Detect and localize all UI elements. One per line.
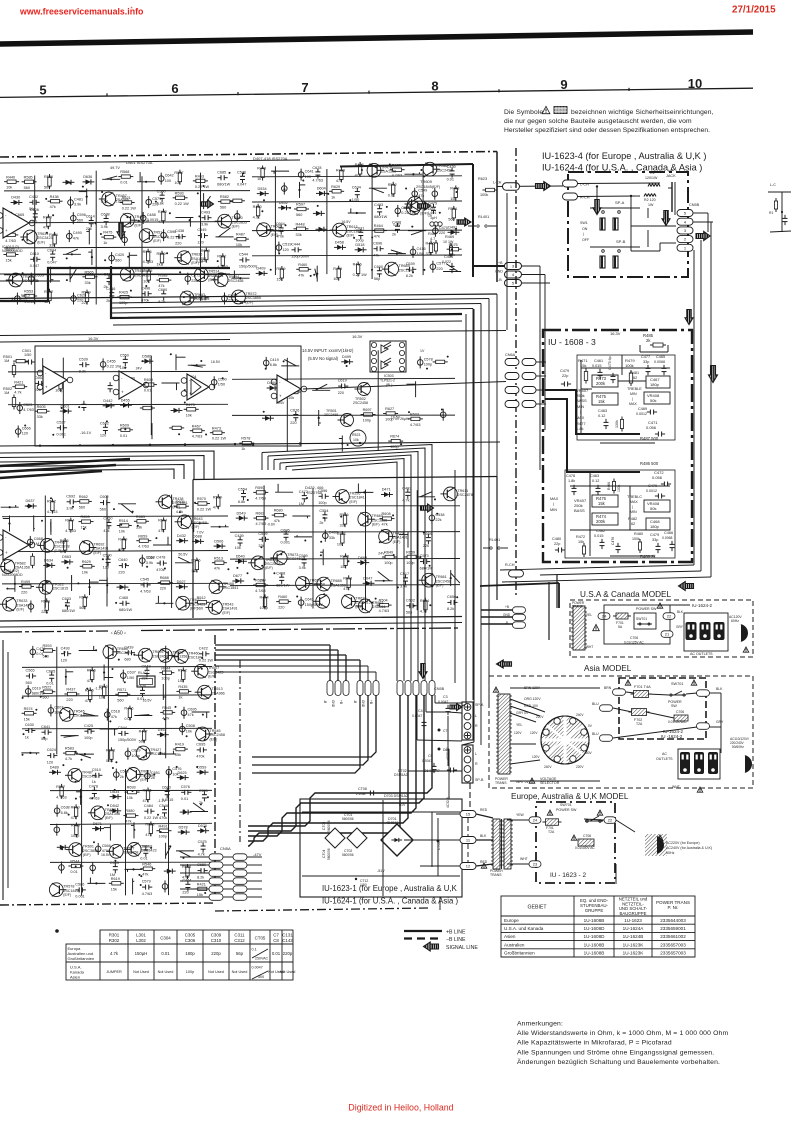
- transistor TR692: [80, 541, 94, 555]
- svg-text:Großbritannien: Großbritannien: [504, 951, 535, 956]
- capacitor C685: [113, 866, 118, 868]
- svg-text:100p: 100p: [84, 736, 92, 740]
- svg-text:C692: C692: [66, 494, 75, 498]
- svg-text:0.12: 0.12: [592, 479, 599, 483]
- svg-text:2k: 2k: [120, 775, 124, 779]
- svg-text:C478: C478: [156, 556, 165, 560]
- capacitor C651: [145, 773, 151, 779]
- capacitor C577: [430, 264, 436, 270]
- resistor R680: [275, 513, 284, 516]
- svg-text:33k: 33k: [37, 415, 43, 419]
- svg-text:D637: D637: [26, 499, 35, 503]
- svg-text:50Hz: 50Hz: [666, 851, 675, 855]
- transistor TR514: [139, 229, 153, 243]
- svg-text:1k: 1k: [92, 780, 96, 784]
- wire: [132, 878, 134, 894]
- svg-text:15k: 15k: [24, 717, 30, 721]
- diode D636: [86, 179, 91, 184]
- svg-text:C468: C468: [276, 571, 285, 575]
- resistor R542: [103, 687, 106, 696]
- capacitor C488: [140, 215, 146, 221]
- resistor R523 10k: [350, 430, 366, 446]
- capacitor C662: [103, 426, 108, 428]
- resistor R509: [85, 293, 88, 302]
- transistor TR545: [60, 708, 74, 722]
- svg-text:D407-418 ISS270A: D407-418 ISS270A: [253, 156, 288, 161]
- capacitor C664: [279, 227, 284, 229]
- transistor TR611: [444, 487, 458, 501]
- thick wire tone link 2: [545, 399, 640, 472]
- resistor R574: [25, 712, 34, 715]
- transistor TR522: [39, 580, 53, 594]
- capacitor C576: [240, 175, 245, 177]
- svg-text:560: 560: [448, 217, 454, 221]
- resistor R625: [233, 199, 242, 202]
- diode D549: [239, 516, 245, 521]
- svg-text:C476: C476: [611, 537, 615, 545]
- svg-text:-51V: -51V: [377, 869, 385, 873]
- diode D491: [451, 230, 457, 235]
- svg-text:0.01/400V AC: 0.01/400V AC: [575, 846, 595, 850]
- svg-text:(E/F): (E/F): [16, 608, 24, 612]
- resistor R678: [110, 750, 113, 759]
- svg-text:0.047: 0.047: [47, 261, 57, 265]
- resistor R695: [63, 541, 66, 550]
- fuse F701 T4A: [634, 691, 649, 698]
- transistor TR609: [408, 197, 423, 212]
- svg-text:240V: 240V: [576, 713, 584, 717]
- capacitor C456: [129, 382, 131, 387]
- svg-text:0.047: 0.047: [30, 264, 40, 268]
- capacitor C596: [321, 494, 323, 499]
- svg-text:C478: C478: [566, 474, 575, 478]
- svg-text:R475: R475: [103, 231, 112, 235]
- svg-text:47k: 47k: [143, 799, 149, 803]
- capacitor C425: [87, 729, 89, 734]
- wire: [69, 266, 71, 282]
- transistor TR457: [102, 192, 116, 206]
- svg-text:C444: C444: [291, 242, 300, 246]
- capacitor C453: [108, 385, 113, 387]
- connector pill 22 europe: [604, 817, 616, 824]
- resistor R583: [66, 751, 75, 754]
- svg-text:680/1W: 680/1W: [276, 584, 290, 588]
- svg-text:C596: C596: [77, 213, 86, 217]
- wire filter output: [303, 382, 506, 390]
- svg-text:0.01: 0.01: [388, 193, 395, 197]
- svg-text:100p: 100p: [55, 388, 63, 392]
- resistor R653: [82, 520, 91, 523]
- svg-text:IC503: IC503: [384, 374, 394, 378]
- svg-text:560: 560: [26, 681, 32, 685]
- svg-text:10k: 10k: [60, 550, 66, 554]
- svg-text:D688: D688: [193, 535, 202, 539]
- svg-text:(E/F): (E/F): [191, 261, 199, 265]
- svg-text:Australien: Australien: [504, 942, 525, 947]
- connector pill R-CH: [509, 570, 524, 577]
- svg-text:0.01: 0.01: [137, 697, 144, 701]
- diode D442: [106, 403, 111, 408]
- svg-text:C465: C465: [656, 355, 665, 359]
- svg-text:C545: C545: [197, 228, 206, 232]
- warning triangle asia 3: [697, 787, 703, 792]
- svg-text:GND: GND: [361, 700, 365, 708]
- svg-text:Asia MODEL: Asia MODEL: [584, 664, 632, 673]
- svg-text:+: +: [279, 394, 282, 399]
- svg-text:(E/F): (E/F): [134, 224, 142, 228]
- svg-text:560: 560: [42, 696, 48, 700]
- resistor R421: [53, 235, 56, 244]
- resistor R635: [146, 791, 149, 800]
- svg-text:R463: R463: [195, 175, 204, 179]
- svg-text:Digitized in Heiloo, Holland: Digitized in Heiloo, Holland: [348, 1103, 453, 1113]
- wire: [175, 562, 193, 564]
- wire: [102, 178, 120, 180]
- svg-text:100k: 100k: [632, 537, 640, 541]
- resistor R546: [143, 867, 152, 870]
- capacitor C705: [437, 840, 440, 843]
- svg-text:8.2k: 8.2k: [79, 370, 86, 374]
- svg-text:R545: R545: [162, 706, 171, 710]
- svg-text:0.0047: 0.0047: [252, 966, 263, 970]
- svg-text:D452: D452: [279, 201, 288, 205]
- svg-text:220: 220: [160, 587, 166, 591]
- svg-text:10k: 10k: [235, 546, 241, 550]
- svg-text:0.01: 0.01: [144, 389, 151, 393]
- capacitor C602: [103, 500, 105, 505]
- svg-text:R421: R421: [14, 380, 23, 384]
- capacitor C685: [234, 214, 240, 220]
- resistor R404: [172, 426, 181, 429]
- capacitor C596: [161, 232, 167, 238]
- wire: [165, 843, 167, 859]
- svg-text:250VAC: 250VAC: [255, 957, 269, 961]
- resistor R603: [411, 417, 420, 420]
- capacitor C436: [109, 292, 114, 294]
- svg-text:10k: 10k: [82, 570, 88, 574]
- svg-text:0.01: 0.01: [140, 857, 147, 861]
- svg-text:4.7/63: 4.7/63: [255, 589, 266, 593]
- svg-text:R653: R653: [81, 515, 90, 519]
- connector CN5B pills group3: [397, 681, 403, 696]
- svg-text:0.01: 0.01: [120, 434, 127, 438]
- resistor R474 200k: [592, 513, 618, 525]
- wire: [89, 579, 91, 595]
- capacitor C696: [376, 246, 378, 251]
- resistor R521: [123, 201, 132, 204]
- parts table right: [501, 896, 695, 957]
- svg-text:C641: C641: [41, 725, 50, 729]
- svg-text:0.22 1W: 0.22 1W: [122, 207, 137, 211]
- svg-text:100p: 100p: [384, 561, 392, 565]
- svg-text:TLP521-2: TLP521-2: [380, 379, 395, 383]
- AC outlets USA: [684, 613, 728, 651]
- node CT bullet: [438, 729, 441, 732]
- svg-text:120: 120: [22, 432, 28, 436]
- svg-text:C576: C576: [181, 785, 190, 789]
- transistor TR661: [422, 573, 436, 587]
- wire: [106, 577, 108, 593]
- connector pill R-CH: [563, 193, 578, 200]
- resistor R675: [450, 248, 459, 251]
- svg-text:L401: L401: [428, 211, 436, 215]
- svg-text:0.22 1W: 0.22 1W: [212, 437, 227, 441]
- resistor R587: [178, 173, 181, 182]
- svg-text:1M: 1M: [4, 359, 9, 363]
- svg-text:14.5V INPUT: xxxmV(1kHz): 14.5V INPUT: xxxmV(1kHz): [302, 348, 354, 353]
- svg-text:6.8k: 6.8k: [238, 500, 245, 504]
- capacitor C650: [200, 868, 202, 873]
- capacitor C688: [104, 218, 109, 220]
- svg-text:2SC1841: 2SC1841: [223, 586, 238, 590]
- svg-text:C311: C311: [234, 932, 245, 937]
- block A50 inner dash wire: [239, 660, 241, 842]
- capacitor C510: [6, 542, 11, 544]
- svg-text:TRANS: TRANS: [490, 873, 502, 877]
- svg-text:R562: R562: [178, 669, 187, 673]
- svg-text:C8: C8: [273, 938, 279, 943]
- svg-text:R656: R656: [87, 669, 96, 673]
- wire: [408, 230, 426, 232]
- capacitor C518: [105, 712, 111, 718]
- capacitor C439: [127, 650, 129, 655]
- capacitor C688: [54, 827, 60, 833]
- svg-text:0.047: 0.047: [237, 183, 247, 187]
- svg-text:150µH: 150µH: [135, 951, 148, 956]
- svg-text:C589: C589: [299, 554, 308, 558]
- transistor TR633: [2, 597, 16, 611]
- svg-text:YEW: YEW: [516, 813, 525, 817]
- svg-text:BASS: BASS: [574, 508, 585, 513]
- svg-text:1k: 1k: [103, 241, 107, 245]
- svg-text:C600: C600: [374, 265, 383, 269]
- svg-text:CT04: CT04: [322, 850, 326, 858]
- capacitor C502: [114, 772, 120, 778]
- resistor R649: [385, 555, 394, 558]
- svg-text:-B: -B: [353, 700, 357, 703]
- svg-text:GND: GND: [503, 613, 511, 617]
- transistor TR468: [209, 580, 223, 594]
- svg-text:4.7k: 4.7k: [402, 499, 409, 503]
- svg-text:BLU: BLU: [592, 702, 599, 706]
- svg-text:Not Used: Not Used: [280, 970, 296, 974]
- svg-text:SP-A: SP-A: [615, 200, 625, 205]
- resistor R659: [436, 360, 445, 363]
- capacitor C631: [358, 231, 363, 233]
- svg-text:0.015: 0.015: [592, 364, 602, 368]
- svg-text:0.01: 0.01: [272, 951, 281, 956]
- svg-text:470k: 470k: [276, 234, 284, 238]
- svg-text:R544: R544: [70, 860, 79, 864]
- svg-text:C695: C695: [281, 528, 290, 532]
- capacitor C672: [185, 276, 191, 282]
- diode D668: [360, 560, 365, 565]
- svg-text:BLK: BLK: [716, 687, 723, 691]
- resistor R421: [341, 534, 344, 543]
- capacitor C539: [82, 362, 84, 367]
- svg-text:R580: R580: [125, 809, 134, 813]
- transistor TR478: [367, 163, 381, 177]
- svg-text:C479: C479: [560, 369, 569, 373]
- wire: [176, 850, 194, 852]
- svg-text:CT08: CT08: [358, 787, 367, 791]
- table bullet: [55, 929, 59, 933]
- potentiometer VR408 50k: [644, 392, 670, 404]
- capacitor C438: [395, 225, 400, 227]
- svg-text:100p: 100p: [71, 834, 79, 838]
- svg-text:C544: C544: [118, 726, 127, 730]
- capacitor C641: [44, 730, 46, 735]
- svg-text:D578: D578: [179, 825, 188, 829]
- svg-text:R509: R509: [82, 291, 91, 295]
- svg-text:IU-1623-1 (for Europe , Austra: IU-1623-1 (for Europe , Australia & U,K: [322, 884, 458, 893]
- wires into CN5A: [180, 856, 209, 858]
- capacitor C663: [38, 381, 40, 386]
- svg-text:2SC2458: 2SC2458: [152, 654, 167, 658]
- connector pill BLU 2: [600, 735, 613, 742]
- svg-text:1U-1608B: 1U-1608B: [584, 942, 605, 947]
- wire: [348, 212, 366, 214]
- svg-text:120V: 120V: [532, 755, 540, 759]
- relay RL401 protection: [137, 676, 155, 687]
- svg-text:50/60Hz: 50/60Hz: [732, 745, 744, 749]
- capacitor C493: [377, 208, 382, 210]
- resistor R586: [343, 515, 346, 524]
- svg-text:200k: 200k: [596, 381, 606, 386]
- capacitor C695: [199, 747, 201, 752]
- svg-text:C432: C432: [29, 195, 38, 199]
- capacitor C559: [426, 537, 431, 539]
- svg-text:D540: D540: [236, 555, 245, 559]
- capacitor C455: [100, 362, 106, 368]
- hatched arrow down: [117, 223, 125, 239]
- voltage selector: [541, 716, 589, 764]
- svg-text:RED: RED: [480, 808, 488, 812]
- resistor R578: [242, 441, 251, 444]
- bottom border wire extension: [215, 908, 430, 911]
- svg-text:C422: C422: [199, 646, 208, 650]
- wire: [231, 277, 249, 279]
- svg-text:47k: 47k: [214, 567, 220, 571]
- svg-text:0.01: 0.01: [124, 717, 131, 721]
- svg-text:R407: R407: [139, 729, 148, 733]
- resistor R609: [205, 251, 208, 260]
- svg-text:33k: 33k: [329, 536, 335, 540]
- svg-text:10k: 10k: [333, 277, 339, 281]
- wire: [175, 217, 193, 219]
- svg-text:BLK: BLK: [480, 834, 487, 838]
- capacitor C643: [298, 600, 304, 606]
- capacitor C450: [106, 522, 111, 524]
- connector pill GRY asia: [697, 723, 710, 730]
- svg-text:R571: R571: [117, 688, 126, 692]
- wire: [1, 506, 19, 508]
- fuse F701 5A USA: [616, 613, 628, 619]
- capacitor C465: [122, 601, 124, 606]
- svg-text:220: 220: [82, 301, 88, 305]
- svg-text:R425: R425: [119, 291, 128, 295]
- svg-text:-B: -B: [498, 278, 502, 282]
- warning triangle asia 2: [691, 680, 697, 685]
- svg-text:(E/F): (E/F): [265, 566, 273, 570]
- svg-text:16.5V: 16.5V: [341, 220, 351, 224]
- resistor R628: [289, 390, 298, 393]
- svg-text:IU-1624-2: IU-1624-2: [692, 603, 713, 608]
- wire: [50, 267, 52, 283]
- diode D534: [260, 191, 265, 196]
- svg-text:GRY: GRY: [716, 720, 724, 724]
- svg-text:R: R: [475, 762, 478, 766]
- wire in board: [596, 185, 598, 187]
- svg-text:33k: 33k: [201, 259, 207, 263]
- svg-text:U.S.A. und Kanada: U.S.A. und Kanada: [504, 926, 544, 931]
- svg-text:560: 560: [77, 218, 83, 222]
- svg-text:5600/56: 5600/56: [327, 848, 331, 860]
- svg-text:D703 DSM1A2: D703 DSM1A2: [384, 794, 408, 798]
- svg-text:120: 120: [61, 659, 67, 663]
- wire: [417, 496, 435, 498]
- capacitor C662: [395, 208, 401, 214]
- svg-text:22: 22: [667, 614, 672, 619]
- svg-text:R482: R482: [628, 517, 637, 521]
- wire runs to CN pills: [215, 644, 330, 646]
- svg-text:0.01/125V AC: 0.01/125V AC: [624, 641, 644, 645]
- resistor R437: [67, 692, 76, 695]
- bus corner verticals: [465, 314, 467, 704]
- svg-text:4.7k: 4.7k: [65, 757, 72, 761]
- resistor R593: [176, 196, 185, 199]
- svg-text:R619: R619: [111, 877, 120, 881]
- transistor TR636: [177, 251, 191, 265]
- diode D432: [179, 538, 184, 543]
- diode D650: [265, 416, 270, 421]
- wires USA model: [480, 583, 559, 586]
- svg-text:50k: 50k: [650, 398, 656, 403]
- capacitor C600: [377, 270, 382, 272]
- svg-text:47k: 47k: [103, 529, 109, 533]
- svg-text:220: 220: [436, 267, 442, 271]
- wire: [292, 515, 310, 517]
- transistor TR643: [178, 515, 192, 529]
- svg-text:15k: 15k: [197, 893, 203, 897]
- svg-text:150p/500V: 150p/500V: [239, 265, 258, 269]
- svg-text:R301: R301: [109, 932, 120, 937]
- svg-text:(E/F): (E/F): [93, 551, 101, 555]
- fuse F702 T2A: [632, 709, 647, 716]
- svg-text:4.7k: 4.7k: [110, 951, 119, 956]
- resistor R679: [147, 271, 150, 280]
- svg-text:R608: R608: [382, 512, 391, 516]
- svg-text:15k: 15k: [340, 565, 346, 569]
- svg-text:POWER SW: POWER SW: [556, 808, 577, 812]
- svg-text:1U-1608B: 1U-1608B: [584, 951, 605, 956]
- svg-text:R416: R416: [124, 707, 133, 711]
- svg-text:49.7V: 49.7V: [110, 166, 120, 170]
- svg-text:R501: R501: [448, 207, 457, 211]
- connector pills +B GND -B: [513, 607, 526, 614]
- capacitor C633: [65, 602, 70, 604]
- wire: [61, 735, 79, 737]
- svg-text:0.0015: 0.0015: [162, 798, 174, 802]
- svg-text:(E/F): (E/F): [153, 239, 161, 243]
- svg-text:C517: C517: [400, 572, 409, 576]
- svg-text:120: 120: [282, 248, 288, 252]
- svg-text:R680: R680: [274, 509, 283, 513]
- svg-text:Asien: Asien: [504, 934, 516, 939]
- svg-text:220: 220: [182, 891, 188, 895]
- svg-text:0.22 1W: 0.22 1W: [175, 202, 190, 206]
- capacitor C641: [298, 172, 304, 178]
